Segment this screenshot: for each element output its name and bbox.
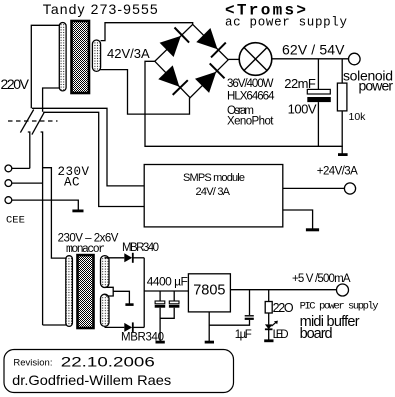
label LED: [273, 329, 289, 341]
ground: filter capacitors: [156, 341, 165, 344]
svg-text:22.10.2006: 22.10.2006: [61, 354, 155, 370]
bridge rectifier diamond outline: [155, 24, 228, 97]
bridge diode D4: [195, 63, 225, 93]
switch S1 pole B lower contact: [41, 132, 43, 325]
wire: D5 cathode to DC bus: [134, 257, 145, 259]
svg-text:XenoPhot: XenoPhot: [227, 116, 274, 128]
terminal: CEE phase input: [5, 165, 12, 172]
svg-text:MBR340: MBR340: [122, 242, 159, 254]
regulator U3 7805 box: [188, 274, 230, 312]
title node <Troms>: [225, 2, 306, 20]
node label 62V / 54V: [282, 42, 345, 58]
node label 230V AC: [58, 165, 90, 190]
transformer T2 secondary winding upper: [101, 256, 110, 288]
wire: T2 secondary bottom to diode D6: [105, 326, 125, 328]
wire: neutral branch to T2 primary top: [43, 168, 69, 258]
label CEE: [6, 215, 25, 227]
svg-text:1µF: 1µF: [235, 329, 252, 341]
svg-text:SMPS module: SMPS module: [183, 172, 245, 184]
transformer T1 core: [72, 21, 90, 93]
svg-text:4400 µF: 4400 µF: [147, 275, 188, 289]
wire: CEE phase to switch pole A: [12, 167, 30, 169]
svg-text:42V/3A: 42V/3A: [107, 46, 150, 61]
ground: 7805: [205, 341, 214, 344]
wire: pole B line to T2 primary bottom: [43, 324, 69, 326]
svg-text:Revision:: Revision:: [13, 358, 52, 369]
svg-text:CEE: CEE: [6, 215, 25, 227]
terminal: CEE earth input: [5, 197, 12, 204]
svg-text:AC: AC: [64, 176, 80, 190]
wire: 7805 ground pin: [208, 312, 210, 342]
diode D5 MBR340: [124, 253, 133, 263]
value label 22mF: [284, 76, 316, 91]
capacitor C4 1uF: [209, 290, 254, 326]
wire: C1 bottom to 0V rail: [317, 102, 319, 146]
wire: lamp to solenoid terminal, 62V rail: [272, 58, 349, 60]
lamp LA1 36V/400W: [239, 43, 272, 76]
wire: switch pole B to SMPS input 2: [43, 112, 144, 206]
wire: switch pole A to SMPS input 1: [32, 108, 144, 186]
svg-text:36V/400W: 36V/400W: [227, 78, 274, 90]
label 230V - 2x6V: [58, 233, 119, 245]
lamp label HLX64664: [227, 91, 275, 103]
svg-text:PIC power supply: PIC power supply: [300, 301, 379, 313]
transformer T2 secondary winding lower: [101, 294, 110, 326]
ground: T2 center tap: [125, 303, 133, 306]
value label 1uF: [235, 329, 252, 341]
value label 10k: [349, 111, 367, 123]
LED D7: [265, 321, 278, 340]
transformer T1 primary winding: [59, 23, 66, 91]
label: Tandy 273-9555: [43, 1, 158, 17]
lamp label Osram: [227, 105, 254, 117]
bridge diode D2: [196, 28, 226, 57]
SMPS module U2 box: [144, 165, 283, 227]
switch S1 blade B: [32, 112, 45, 135]
svg-text:220V: 220V: [1, 76, 30, 92]
svg-text:7805: 7805: [193, 283, 225, 299]
transformer T1 secondary winding: [92, 40, 100, 71]
resistor R2 220: [265, 290, 272, 325]
svg-text:dr.Godfried-Willem Raes: dr.Godfried-Willem Raes: [12, 372, 171, 388]
revision box: [4, 350, 234, 393]
wire: center tap bracket: [106, 287, 130, 304]
wire: primary top to switch pole A: [31, 25, 59, 108]
svg-text:+24V/3A: +24V/3A: [317, 166, 358, 178]
bridge diode D3: [158, 65, 188, 95]
label MBR340 upper: [122, 242, 159, 254]
svg-text:board: board: [300, 326, 333, 342]
node label 220V: [1, 76, 30, 92]
wire: primary bottom to switch pole B: [43, 88, 60, 112]
wire: CEE neutral to switch pole B: [12, 182, 43, 184]
terminal: +24V/3A output: [344, 183, 355, 194]
wire: SMPS +24V output: [283, 187, 345, 189]
value label 100V: [288, 102, 317, 117]
switch S1 pole A lower contact: [28, 132, 30, 168]
output label +24V/3A: [317, 166, 358, 178]
subtitle: ac power supply: [225, 16, 347, 30]
svg-text:HLX64664: HLX64664: [227, 91, 275, 103]
output label solenoid power: [343, 68, 393, 94]
label Revision: 22.10.2006: [13, 354, 155, 370]
terminal: +5V/500mA output: [337, 284, 349, 296]
output label +5 V /500mA: [292, 273, 351, 285]
wire: T1 secondary top to bridge top corner: [101, 23, 193, 41]
capacitor C1 22mF plates: [307, 89, 331, 102]
terminal: solenoid power output: [349, 53, 361, 65]
label SMPS module: [183, 172, 245, 184]
svg-text:ac power supply: ac power supply: [225, 16, 347, 30]
wire: T2 secondary top to diode D5: [105, 257, 125, 259]
capacitor C3 4400uF: [160, 291, 179, 318]
value label 4400uF: [147, 275, 188, 289]
switch S1 linkage dashed line: [8, 120, 58, 122]
wire: D6 cathode to DC bus: [134, 326, 145, 328]
value label 42V/3A: [107, 46, 150, 61]
terminal: CEE neutral input: [5, 180, 12, 187]
svg-text:100V: 100V: [288, 102, 317, 117]
svg-text:22mF: 22mF: [284, 76, 316, 91]
label board: [300, 326, 333, 342]
ground: mains earth: [72, 210, 83, 213]
svg-text:22O: 22O: [273, 301, 294, 315]
svg-text:power: power: [359, 78, 394, 94]
bridge diode D1: [160, 28, 190, 58]
wire: DC bus vertical: [143, 258, 145, 328]
wire: SMPS 0V output to ground: [283, 210, 313, 229]
wire: bridge minus (left corner) to 0V rail: [145, 61, 343, 146]
wire: 62V rail down to capacitor C1: [317, 59, 319, 90]
resistor R1 10k: [337, 59, 347, 154]
capacitor C2 4400uF: [155, 291, 166, 341]
label 7805: [193, 283, 225, 299]
wire: T1 secondary bottom to bridge bottom corner: [100, 70, 190, 115]
wire: CEE earth to ground: [12, 200, 79, 209]
transformer T2 core: [78, 255, 94, 328]
wire: bridge plus (right corner) to lamp: [228, 58, 239, 60]
value label 220: [273, 301, 294, 315]
lamp label XenoPhot: [227, 116, 274, 128]
svg-text:24V/ 3A: 24V/ 3A: [196, 186, 231, 198]
lamp value label 36V/400W: [227, 78, 274, 90]
label 24V/ 3A: [196, 186, 231, 198]
ground: LED: [264, 339, 273, 342]
svg-text:Tandy 273-9555: Tandy 273-9555: [43, 1, 158, 17]
label MBR340 lower: [121, 332, 164, 344]
transformer T2 primary winding: [66, 256, 73, 327]
wire: 7805 output +5V rail: [230, 289, 336, 291]
svg-text:+5 V /500mA: +5 V /500mA: [292, 273, 351, 285]
wire: DC bus to 7805 input rail: [144, 290, 188, 292]
svg-text:LED: LED: [273, 329, 289, 341]
svg-text:10k: 10k: [349, 111, 367, 123]
label monacor: [66, 243, 105, 256]
svg-text:62V / 54V: 62V / 54V: [282, 42, 345, 58]
diode D6 MBR340: [124, 322, 133, 332]
label midi buffer: [300, 314, 360, 330]
switch S1 blade A: [20, 110, 33, 133]
ground: SMPS output ground: [306, 228, 319, 231]
label dr.Godfried-Willem Raes: [12, 372, 171, 388]
label PIC power supply: [300, 301, 379, 313]
ground: main 0V rail ground: [338, 153, 348, 156]
